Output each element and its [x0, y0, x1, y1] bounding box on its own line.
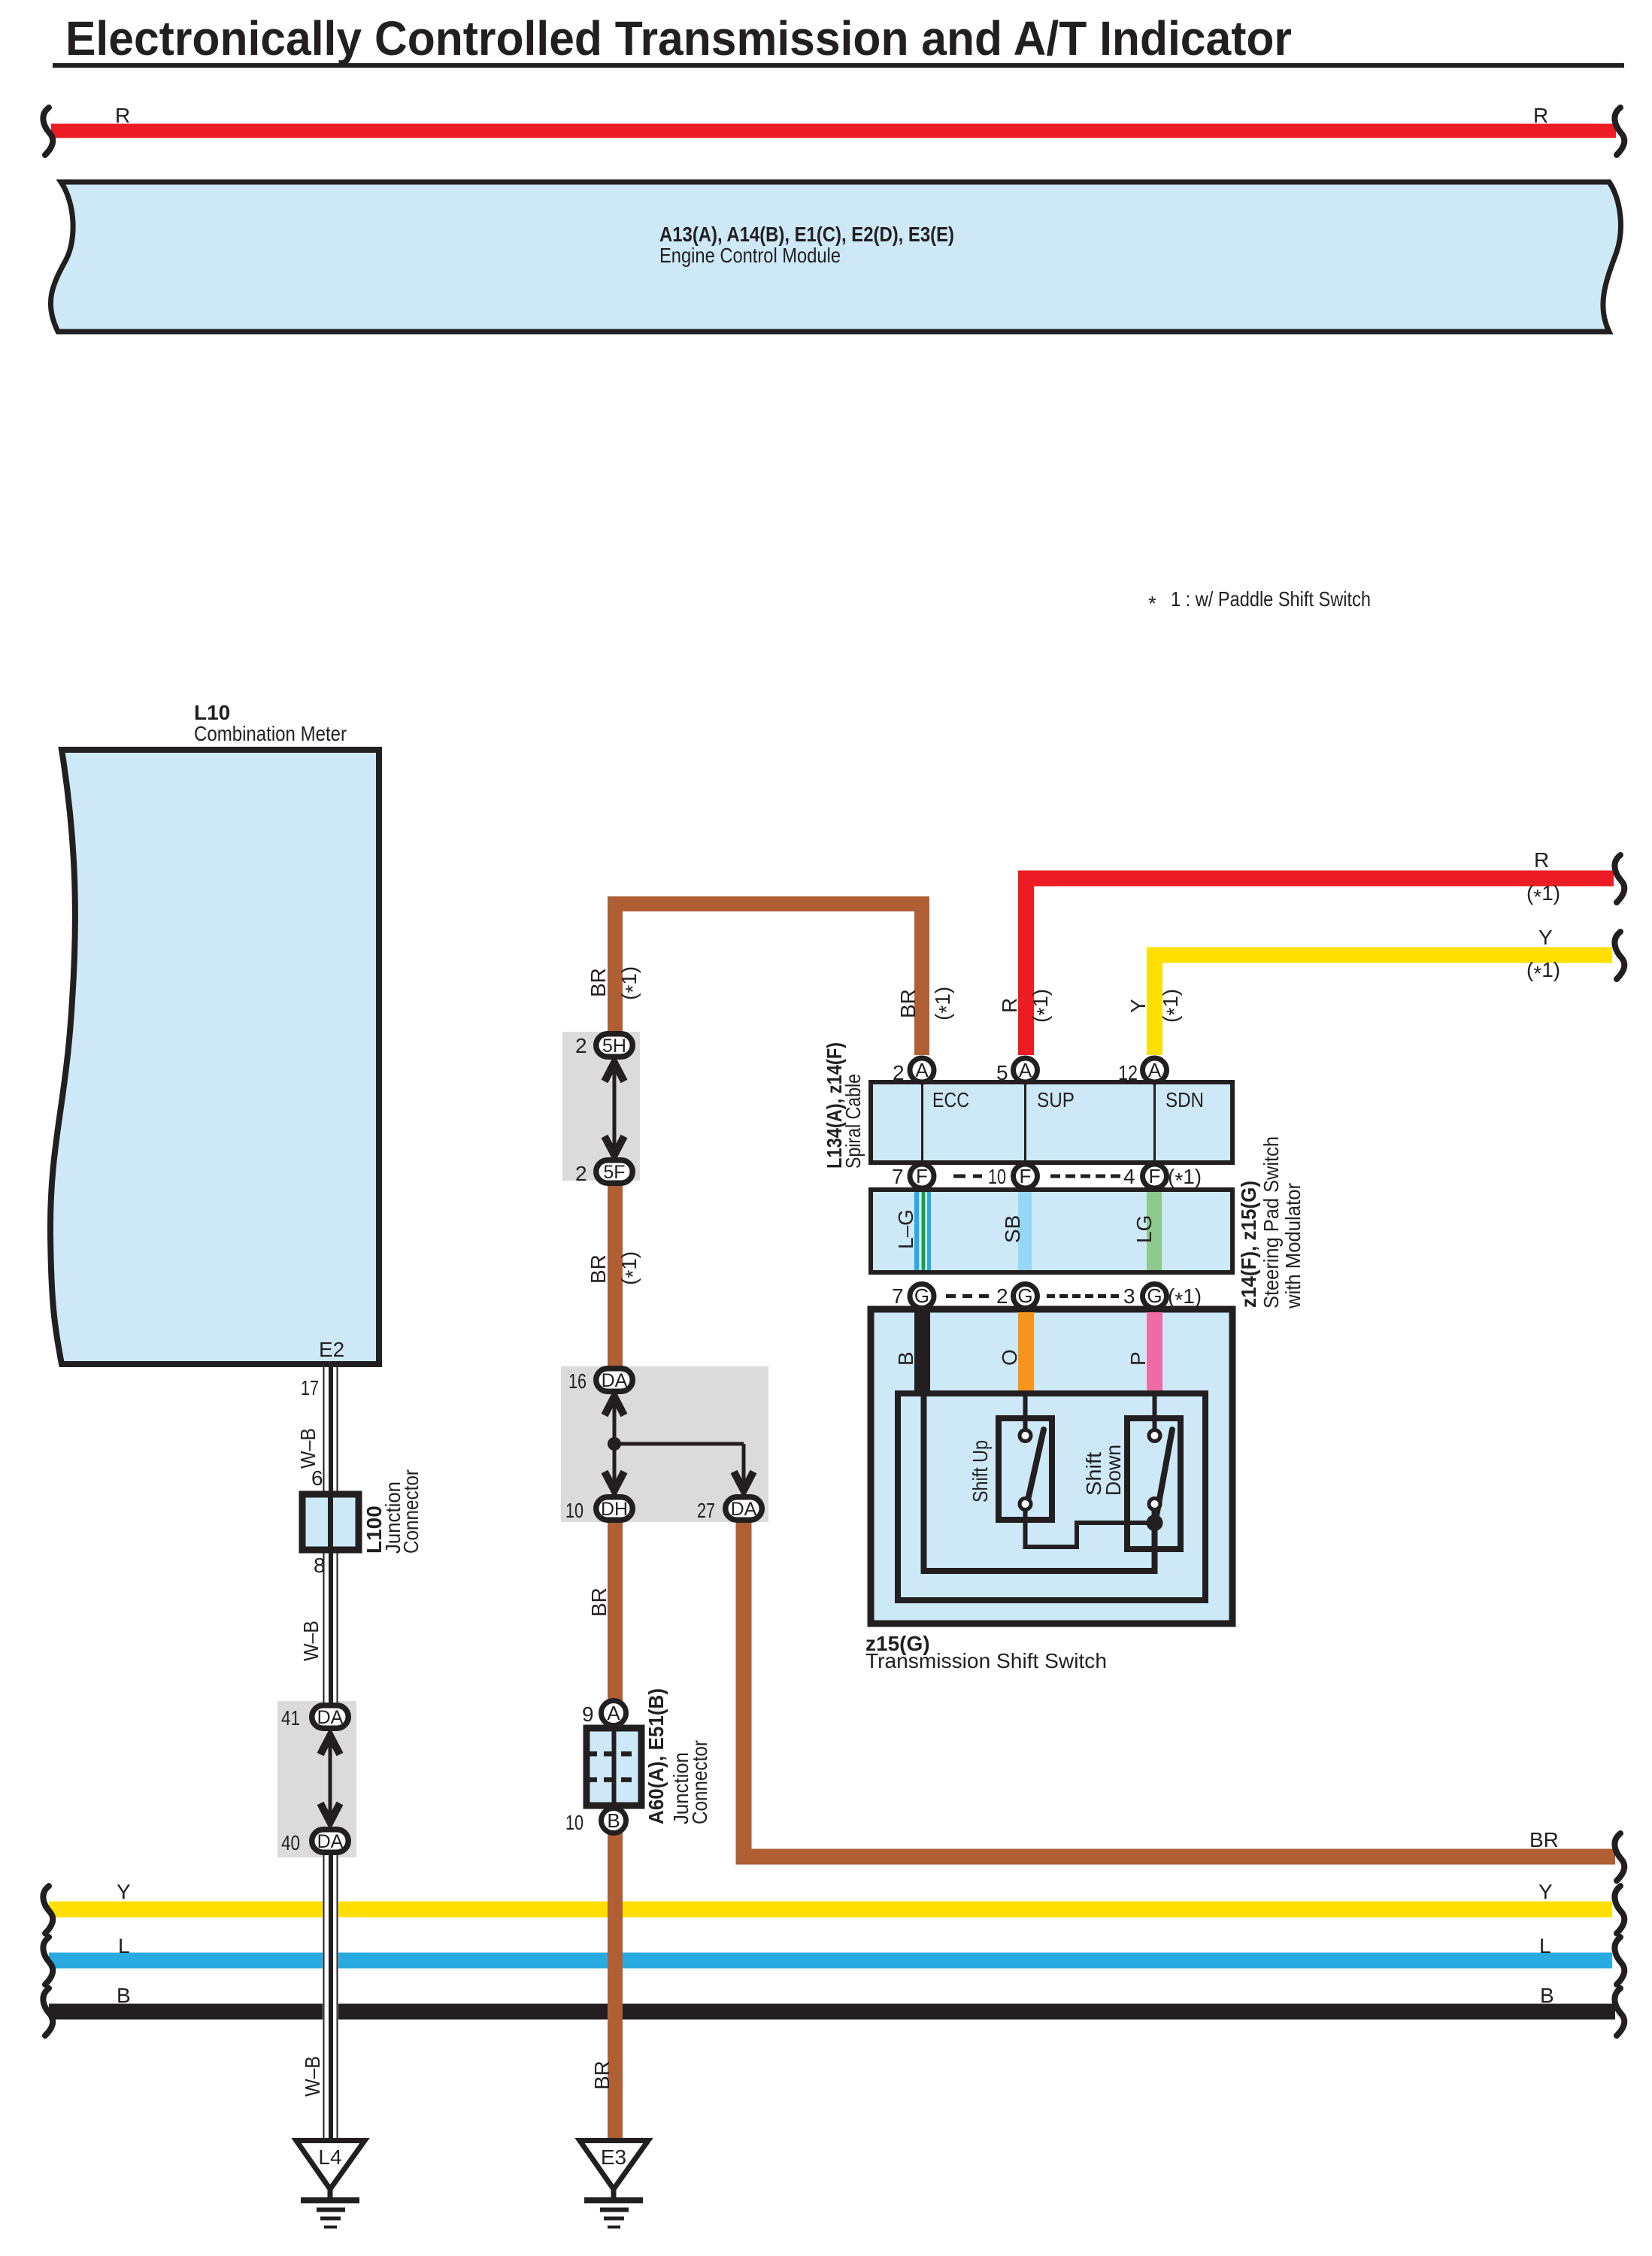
- svg-text:W–B: W–B: [299, 1621, 323, 1661]
- svg-text:DA: DA: [602, 1370, 628, 1391]
- svg-text:BR: BR: [587, 1587, 611, 1617]
- svg-text:(*1): (*1): [1029, 989, 1056, 1023]
- svg-text:*: *: [1148, 592, 1156, 615]
- svg-text:(*1): (*1): [617, 1251, 644, 1285]
- svg-text:SUP: SUP: [1037, 1088, 1075, 1111]
- svg-text:Electronically Controlled Tran: Electronically Controlled Transmission a…: [65, 11, 1292, 65]
- svg-text:Connector: Connector: [688, 1740, 711, 1824]
- svg-text:Connector: Connector: [399, 1469, 423, 1554]
- svg-text:7: 7: [892, 1165, 904, 1188]
- svg-text:Y: Y: [1538, 926, 1553, 949]
- svg-text:Y: Y: [1126, 999, 1150, 1013]
- svg-text:(*1): (*1): [1168, 1284, 1202, 1311]
- svg-text:E3: E3: [601, 2145, 626, 2169]
- svg-text:B: B: [1540, 1984, 1554, 2007]
- svg-text:L–G: L–G: [894, 1209, 917, 1249]
- svg-text:G: G: [1147, 1284, 1162, 1307]
- svg-text:40: 40: [281, 1831, 300, 1854]
- svg-text:DH: DH: [601, 1499, 628, 1520]
- svg-text:A60(A), E51(B): A60(A), E51(B): [644, 1688, 668, 1824]
- svg-text:10: 10: [565, 1499, 584, 1522]
- svg-text:A: A: [1148, 1059, 1162, 1081]
- svg-text:B: B: [117, 1984, 131, 2007]
- svg-text:27: 27: [697, 1499, 715, 1522]
- svg-text:R: R: [998, 998, 1021, 1013]
- svg-text:BR: BR: [896, 989, 920, 1018]
- svg-text:G: G: [914, 1284, 929, 1307]
- svg-text:L: L: [1539, 1934, 1551, 1957]
- svg-text:BR: BR: [590, 2060, 614, 2090]
- svg-text:(*1): (*1): [617, 966, 644, 1000]
- svg-text:10: 10: [565, 1811, 584, 1834]
- svg-text:6: 6: [311, 1466, 323, 1490]
- svg-text:(*1): (*1): [1526, 958, 1560, 985]
- svg-text:ECC: ECC: [932, 1088, 969, 1111]
- svg-text:L4: L4: [318, 2145, 341, 2169]
- svg-text:with Modulator: with Modulator: [1281, 1183, 1305, 1309]
- svg-text:E2: E2: [319, 1338, 344, 1361]
- svg-text:(*1): (*1): [1526, 881, 1560, 908]
- svg-text:A13(A), A14(B), E1(C), E2(D),: A13(A), A14(B), E1(C), E2(D), E3(E): [659, 223, 954, 246]
- svg-text:4: 4: [1123, 1165, 1135, 1188]
- svg-text:5F: 5F: [603, 1162, 625, 1183]
- svg-text:2: 2: [996, 1284, 1008, 1308]
- svg-text:A: A: [1019, 1059, 1032, 1081]
- svg-text:O: O: [998, 1349, 1021, 1366]
- svg-text:DA: DA: [317, 1831, 344, 1852]
- svg-text:BR: BR: [1529, 1828, 1559, 1851]
- svg-text:2: 2: [575, 1034, 587, 1057]
- svg-text:F: F: [1020, 1165, 1032, 1187]
- svg-text:L10: L10: [194, 701, 230, 724]
- svg-text:Y: Y: [1538, 1880, 1553, 1903]
- svg-text:Combination Meter: Combination Meter: [194, 722, 347, 745]
- svg-text:W–B: W–B: [296, 1428, 320, 1469]
- svg-text:B: B: [894, 1351, 917, 1366]
- svg-text:G: G: [1017, 1284, 1032, 1307]
- svg-text:DA: DA: [731, 1499, 757, 1520]
- svg-text:SDN: SDN: [1165, 1088, 1204, 1111]
- svg-text:5: 5: [996, 1061, 1008, 1084]
- svg-text:A: A: [915, 1059, 929, 1081]
- svg-text:(*1): (*1): [931, 987, 958, 1020]
- svg-text:SB: SB: [1001, 1215, 1024, 1243]
- svg-text:12: 12: [1118, 1061, 1138, 1084]
- svg-text:Spiral Cable: Spiral Cable: [841, 1074, 865, 1169]
- svg-text:R: R: [1533, 104, 1548, 127]
- svg-text:P: P: [1126, 1351, 1150, 1366]
- svg-text:Engine Control Module: Engine Control Module: [659, 244, 841, 267]
- svg-text:LG: LG: [1132, 1215, 1156, 1243]
- svg-text:(*1): (*1): [1168, 1165, 1202, 1192]
- svg-text:10: 10: [988, 1165, 1006, 1188]
- svg-text:7: 7: [892, 1284, 904, 1308]
- svg-text:16: 16: [568, 1369, 587, 1393]
- svg-text:R: R: [1534, 848, 1549, 872]
- svg-text:1 : w/ Paddle Shift Switch: 1 : w/ Paddle Shift Switch: [1171, 587, 1371, 611]
- svg-text:R: R: [115, 104, 130, 127]
- svg-text:9: 9: [582, 1703, 594, 1726]
- svg-text:2: 2: [893, 1061, 905, 1084]
- svg-text:W–B: W–B: [301, 2056, 324, 2097]
- svg-text:F: F: [916, 1165, 928, 1187]
- svg-text:DA: DA: [317, 1707, 344, 1728]
- svg-text:Steering Pad Switch: Steering Pad Switch: [1259, 1136, 1283, 1308]
- svg-text:z14(F), z15(G): z14(F), z15(G): [1237, 1181, 1260, 1308]
- svg-text:41: 41: [281, 1706, 300, 1730]
- svg-text:(*1): (*1): [1159, 989, 1186, 1023]
- svg-text:Down: Down: [1102, 1445, 1125, 1496]
- svg-text:8: 8: [314, 1554, 326, 1577]
- svg-text:2: 2: [575, 1162, 587, 1185]
- svg-text:5H: 5H: [602, 1036, 626, 1057]
- svg-text:B: B: [607, 1809, 620, 1832]
- svg-text:3: 3: [1123, 1284, 1135, 1308]
- svg-text:BR: BR: [587, 1254, 610, 1284]
- svg-text:17: 17: [301, 1376, 319, 1399]
- svg-text:Y: Y: [117, 1880, 131, 1903]
- svg-text:Shift Up: Shift Up: [968, 1440, 992, 1502]
- svg-text:BR: BR: [587, 968, 610, 997]
- svg-text:L: L: [118, 1934, 130, 1957]
- svg-text:F: F: [1149, 1165, 1161, 1187]
- svg-text:Transmission Shift Switch: Transmission Shift Switch: [865, 1649, 1107, 1672]
- svg-text:A: A: [607, 1702, 620, 1724]
